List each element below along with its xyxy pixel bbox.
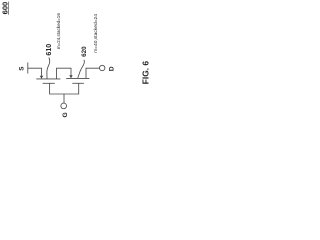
svg-text:G: G (62, 112, 69, 117)
svg-text:m=24,stacked=16: m=24,stacked=16 (56, 13, 61, 50)
svg-text:S: S (18, 66, 25, 71)
svg-text:m=40,stacked=24: m=40,stacked=24 (93, 14, 99, 53)
svg-text:600: 600 (0, 2, 9, 15)
svg-text:610: 610 (45, 44, 53, 56)
svg-text:FIG. 6: FIG. 6 (141, 61, 151, 85)
svg-text:D: D (109, 66, 116, 71)
svg-text:620: 620 (81, 46, 88, 57)
